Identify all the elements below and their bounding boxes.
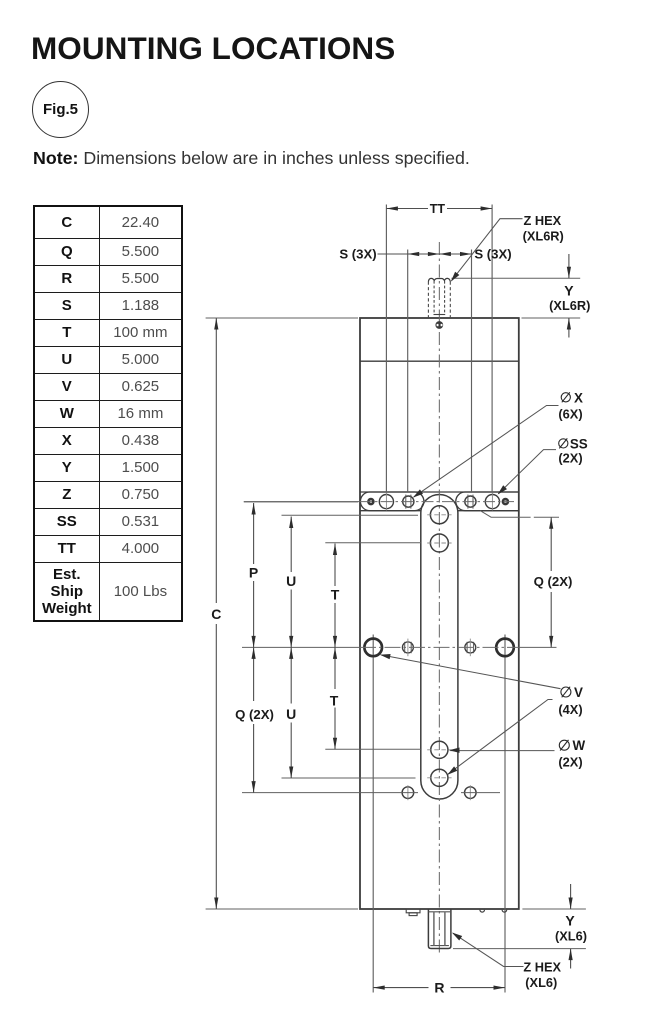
svg-text:Z HEX: Z HEX <box>523 959 561 974</box>
bottom stud bottom chamfer line <box>430 945 449 947</box>
leader dia V lower <box>448 700 552 774</box>
Y bottom ext at stud bottom <box>453 948 586 950</box>
Y bottom ext at body bottom <box>522 908 586 910</box>
C top extension line <box>206 317 358 319</box>
bottom plug tab stepped <box>406 909 420 913</box>
right mounting slot stadium <box>456 492 519 511</box>
top stud outer thread dashed right <box>449 282 451 318</box>
S extension line left / bolt line <box>407 250 409 493</box>
svg-text:(4X): (4X) <box>558 702 582 717</box>
svg-text:S (3X): S (3X) <box>339 246 376 261</box>
dimension U upper line <box>290 517 292 573</box>
dimension T upper line <box>334 544 336 587</box>
slot hole 2 dia <box>430 534 448 552</box>
svg-text:U: U <box>286 706 296 722</box>
bottom stud top chamfer line <box>428 911 451 913</box>
bottom stud outline <box>428 909 451 949</box>
leader dia SS <box>499 450 557 494</box>
label dia SS <box>559 439 568 448</box>
bottom stud spline line right <box>444 912 446 946</box>
cap joint line <box>360 360 519 362</box>
leader Z HEX bottom <box>453 933 524 966</box>
hole SS left <box>379 495 393 509</box>
S extension line right / bolt line <box>471 250 473 493</box>
svg-text:Z HEX: Z HEX <box>523 213 561 228</box>
hole V bold right <box>496 639 514 657</box>
svg-text:W: W <box>572 738 585 753</box>
hole X right-flange with thread lines <box>465 496 476 507</box>
flange band top line <box>360 491 519 493</box>
svg-text:S (3X): S (3X) <box>474 246 511 261</box>
svg-text:C: C <box>211 606 221 622</box>
bottom stud spline line left <box>433 912 435 946</box>
U upper extension line <box>282 514 419 516</box>
top stud inner thread dashed right <box>444 281 446 315</box>
top stud thread crest (wavy top) <box>428 278 450 281</box>
svg-text:X: X <box>574 390 583 405</box>
leader dia V upper <box>382 655 561 689</box>
svg-text:TT: TT <box>430 202 446 216</box>
svg-text:(XL6R): (XL6R) <box>549 298 590 313</box>
hole X bottom-left <box>402 787 414 799</box>
Q lower extension line <box>242 792 418 794</box>
C bottom extension line <box>206 908 358 910</box>
vertical centerline <box>438 242 440 955</box>
dimension S line <box>378 253 472 255</box>
top stud inner thread dashed left <box>433 281 435 315</box>
dimension C line <box>215 318 217 603</box>
P top extension line <box>244 501 358 503</box>
svg-text:V: V <box>574 685 583 700</box>
slot hole 3 dia <box>431 741 448 758</box>
svg-text:Q (2X): Q (2X) <box>235 707 274 722</box>
svg-text:R: R <box>434 979 444 995</box>
slot hole 1 dia <box>430 506 448 524</box>
hole X left-flange with thread lines <box>403 496 414 507</box>
svg-text:Q (2X): Q (2X) <box>534 574 573 589</box>
flange row centerline <box>244 501 360 503</box>
middle row centerline <box>242 646 360 648</box>
flange set screw left <box>367 498 375 506</box>
slot hole 4 dia <box>431 769 448 786</box>
label dia W <box>559 740 569 750</box>
leader Z HEX top <box>452 219 523 281</box>
label dia V <box>561 687 571 697</box>
dimension TT line <box>386 208 428 210</box>
svg-text:P: P <box>249 565 258 581</box>
hole V bold left <box>364 639 382 657</box>
hole X middle-left <box>402 642 413 653</box>
hole X middle-right <box>465 642 476 653</box>
top stud outer thread dashed left <box>427 282 429 318</box>
dimension Q lower line <box>253 647 255 701</box>
dimension U lower line <box>290 647 292 703</box>
svg-text:(2X): (2X) <box>558 755 582 770</box>
svg-text:Y: Y <box>565 912 575 928</box>
Y top ext at body top <box>522 317 581 319</box>
TT extension line left / bolt line <box>385 205 387 493</box>
dimension T lower line <box>334 647 336 689</box>
T upper extension line <box>325 542 421 544</box>
svg-text:SS: SS <box>570 436 588 451</box>
TT extension line right / bolt line <box>491 205 493 493</box>
svg-text:(XL6R): (XL6R) <box>523 228 564 243</box>
flange band bottom line <box>360 510 421 512</box>
Y top ext at stud top <box>451 277 580 279</box>
dimension P line <box>253 503 255 564</box>
left mounting slot stadium <box>360 492 424 511</box>
svg-text:U: U <box>286 573 296 589</box>
label dia X <box>561 393 570 402</box>
U lower extension line <box>282 777 416 779</box>
svg-text:(2X): (2X) <box>558 450 582 465</box>
svg-text:T: T <box>330 692 339 708</box>
S arrows <box>408 252 420 256</box>
R extension line left <box>372 635 374 993</box>
hole SS right <box>485 495 499 509</box>
bottom bump left <box>480 910 485 912</box>
leader dia W <box>450 750 554 752</box>
svg-text:T: T <box>331 587 340 603</box>
svg-text:(XL6): (XL6) <box>555 929 587 944</box>
hole X bottom-right <box>465 787 477 799</box>
bottom bump right <box>502 910 507 912</box>
svg-text:Y: Y <box>564 283 574 299</box>
dimension Q right line <box>550 517 552 571</box>
flange set screw right <box>502 498 510 506</box>
dimension Y bottom arrows <box>570 884 572 909</box>
Q right jog extension <box>480 511 559 518</box>
R extension line right <box>504 635 506 993</box>
T lower extension line <box>325 748 421 750</box>
leader dia X <box>414 406 559 497</box>
svg-text:(XL6): (XL6) <box>525 975 557 990</box>
cylinder body outline <box>360 318 519 909</box>
top stud root bottom <box>434 314 446 316</box>
dimension Y top arrows <box>568 254 570 278</box>
set screw on cap top <box>435 321 443 329</box>
dimension R line <box>373 987 428 989</box>
svg-text:(6X): (6X) <box>558 407 582 422</box>
center bracket with arch and rounded bottom <box>421 494 458 799</box>
